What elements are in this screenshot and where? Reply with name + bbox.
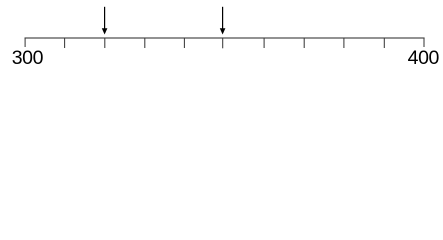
svg-text:300: 300 [12, 47, 44, 69]
tick 370 [303, 38, 305, 48]
number line (300 to 400) [25, 37, 425, 39]
tick 300 (left end) [24, 38, 26, 47]
tick 330 [144, 38, 146, 48]
arrow at 350 (head) [220, 28, 226, 34]
tick 360 [263, 38, 265, 48]
tick 390 [383, 38, 385, 48]
tick 320 [104, 38, 106, 48]
tick 350 [222, 38, 224, 48]
arrow at 320 (head) [102, 28, 108, 34]
tick 340 [183, 38, 185, 48]
svg-text:400: 400 [408, 47, 440, 69]
tick 380 [343, 38, 345, 48]
arrow at 320 (stem) [104, 7, 106, 29]
tick 400 (right end) [423, 38, 425, 47]
tick 310 [64, 38, 66, 48]
arrow at 350 (stem) [222, 7, 224, 29]
